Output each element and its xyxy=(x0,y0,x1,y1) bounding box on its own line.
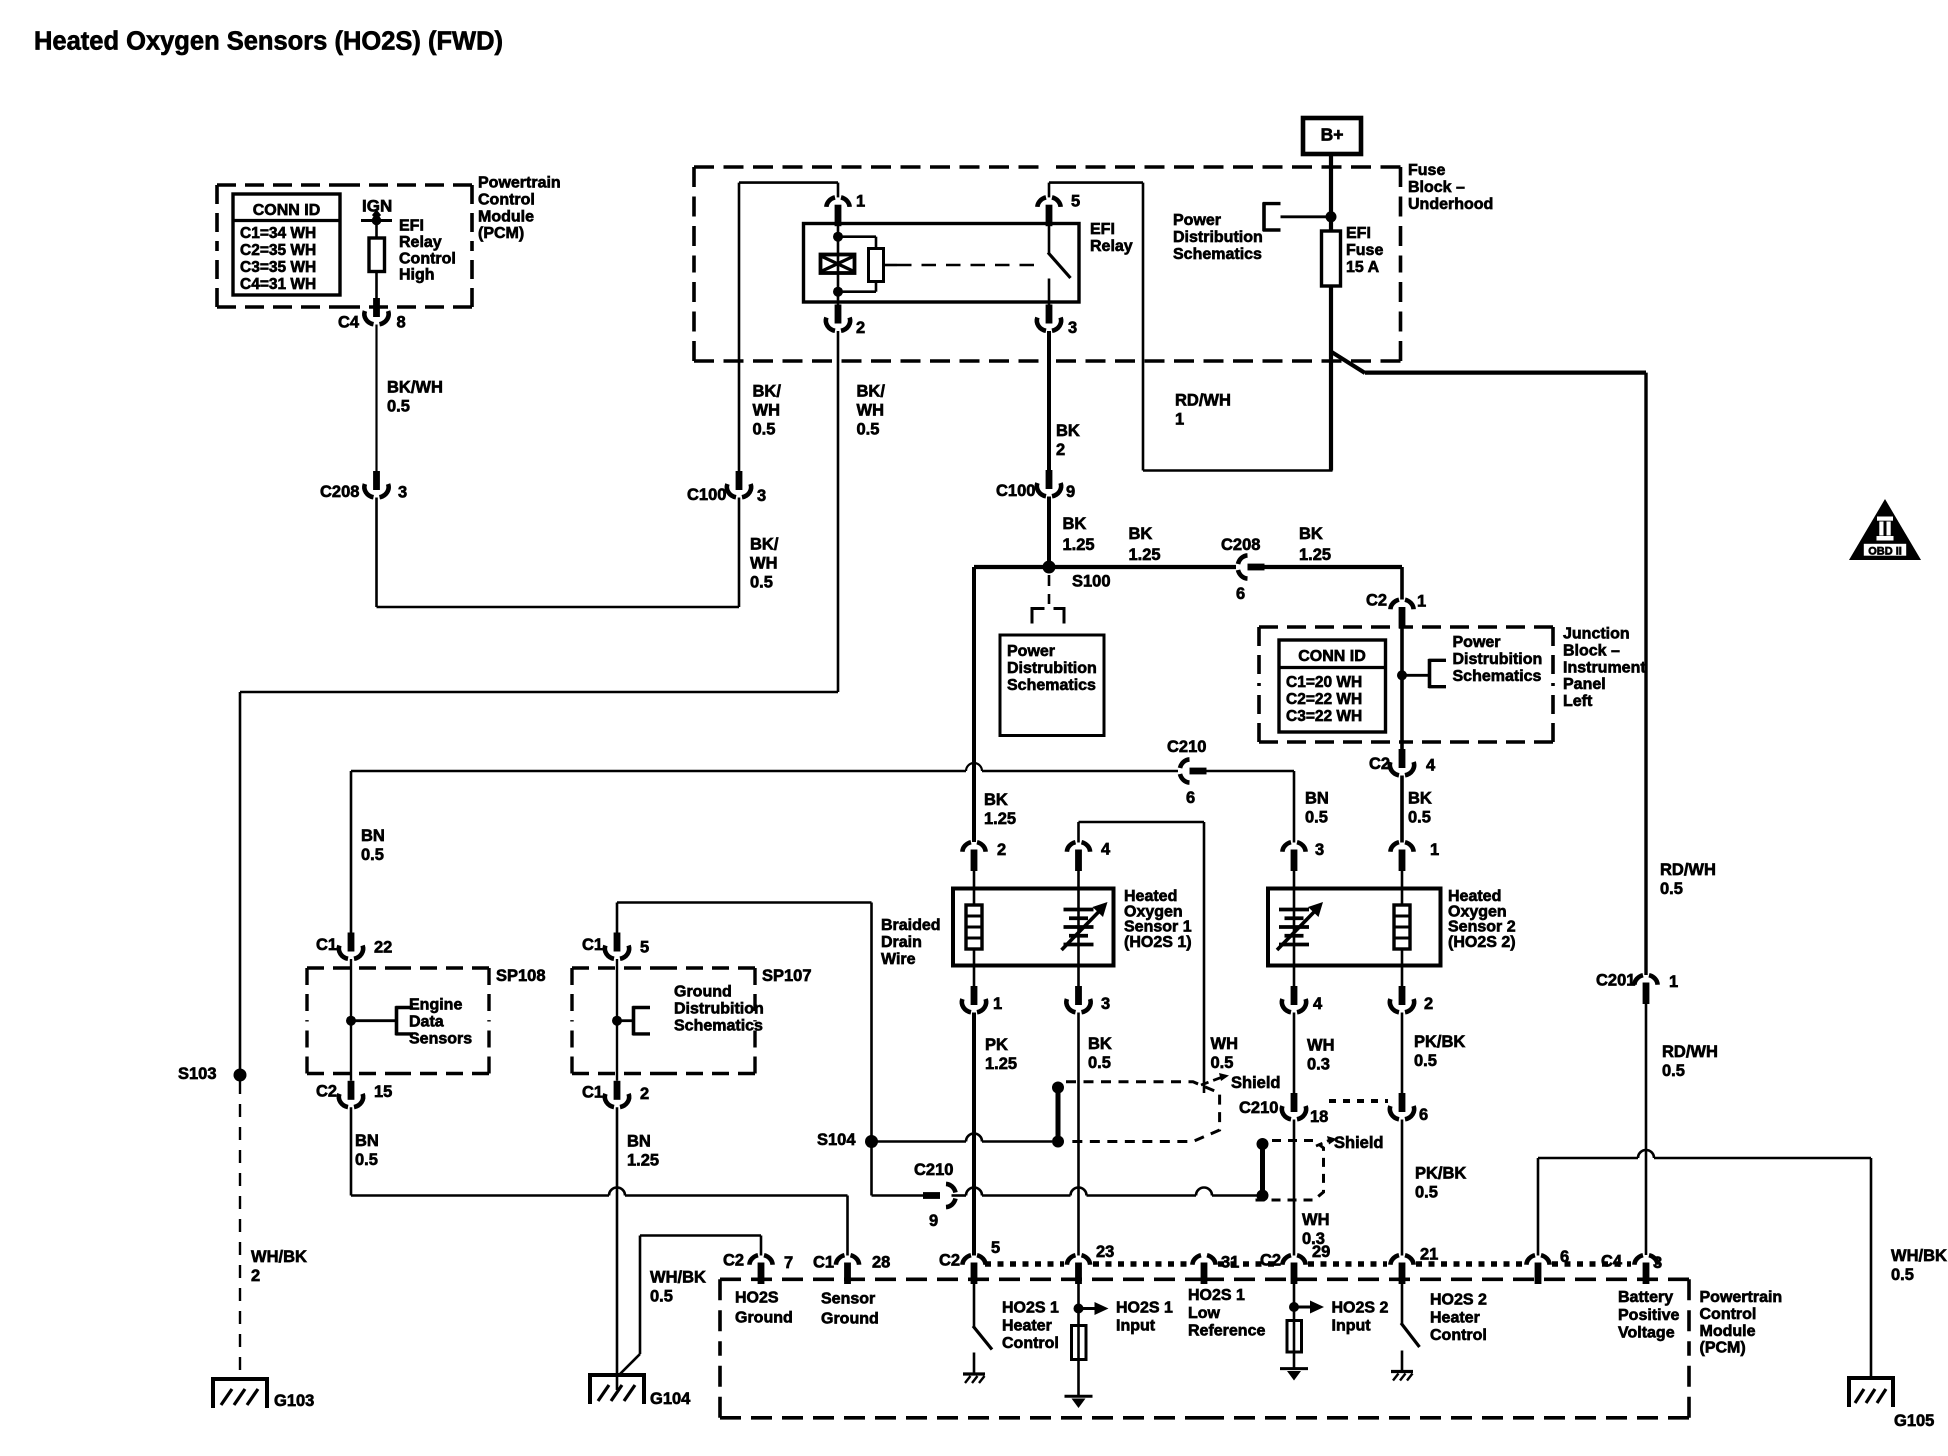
svg-text:3: 3 xyxy=(1068,319,1077,337)
svg-text:BK/: BK/ xyxy=(753,383,782,401)
svg-text:C2: C2 xyxy=(1369,755,1390,773)
svg-text:PK/BK: PK/BK xyxy=(1414,1033,1465,1051)
svg-text:BN: BN xyxy=(355,1132,379,1150)
svg-text:Heater: Heater xyxy=(1430,1309,1480,1326)
svg-text:EFI: EFI xyxy=(399,218,424,235)
label Powertrain Control Module PCM xyxy=(1700,1289,1783,1356)
svg-text:5: 5 xyxy=(991,1239,1000,1257)
SP108 wire xyxy=(350,959,352,1081)
label HO2S 1 Low Reference xyxy=(1188,1287,1265,1339)
label WH/BK 0.5 right xyxy=(1891,1247,1947,1284)
svg-text:0.5: 0.5 xyxy=(1891,1266,1914,1284)
svg-text:0.5: 0.5 xyxy=(1408,809,1431,827)
connector relay pin 1 xyxy=(826,183,865,227)
svg-text:Distrubition: Distrubition xyxy=(1453,651,1543,668)
svg-text:5: 5 xyxy=(1071,193,1080,211)
wire trunk BK 1.25 xyxy=(974,567,1402,842)
wire B+ to fuse xyxy=(1326,154,1337,231)
svg-text:0.5: 0.5 xyxy=(1305,809,1328,827)
wire PK 1.25 xyxy=(974,1013,1017,1256)
svg-text:BK: BK xyxy=(984,791,1008,809)
svg-text:Module: Module xyxy=(478,208,534,225)
svg-text:Heated Oxygen Sensors (HO2S) (: Heated Oxygen Sensors (HO2S) (FWD) xyxy=(34,28,503,56)
svg-text:Voltage: Voltage xyxy=(1618,1325,1675,1342)
svg-text:C2: C2 xyxy=(939,1252,960,1270)
connector C208 pin 3 xyxy=(320,471,407,502)
label B+ xyxy=(1303,118,1361,154)
svg-text:HO2S 1: HO2S 1 xyxy=(1116,1300,1173,1317)
svg-text:HO2S 1: HO2S 1 xyxy=(1188,1287,1245,1304)
svg-text:WH/BK: WH/BK xyxy=(251,1248,307,1266)
svg-text:22: 22 xyxy=(374,939,392,957)
svg-text:S100: S100 xyxy=(1072,573,1111,591)
HO2S1 sensor element xyxy=(1062,866,1108,987)
wire C210-9 to shield 2 drain xyxy=(952,1188,1263,1196)
svg-text:6: 6 xyxy=(1560,1248,1569,1266)
svg-text:BK/WH: BK/WH xyxy=(387,379,443,397)
svg-text:Fuse: Fuse xyxy=(1346,242,1383,259)
svg-text:HO2S 2: HO2S 2 xyxy=(1332,1300,1389,1317)
svg-text:0.5: 0.5 xyxy=(1088,1054,1111,1072)
svg-text:Ground: Ground xyxy=(674,984,732,1001)
svg-text:C210: C210 xyxy=(1239,1099,1278,1117)
svg-text:C100: C100 xyxy=(687,486,726,504)
pcm pin31 stub xyxy=(1203,1281,1206,1284)
relay dashed actuator link xyxy=(884,264,1041,267)
pcm HO2S1 heater switch xyxy=(963,1281,992,1384)
svg-text:C4: C4 xyxy=(1601,1253,1623,1271)
svg-text:BK: BK xyxy=(1088,1035,1112,1053)
svg-text:4: 4 xyxy=(1426,757,1436,775)
label Junction Block - Instrument Panel Left xyxy=(1563,626,1646,710)
connector C1 pin 5 xyxy=(582,933,649,959)
svg-text:OBD II: OBD II xyxy=(1868,546,1902,558)
connector C2 pin 15 xyxy=(316,1081,392,1107)
svg-text:C1=20 WH: C1=20 WH xyxy=(1286,674,1362,691)
svg-text:Input: Input xyxy=(1116,1317,1156,1334)
wire PK/BK 0.5 upper xyxy=(1402,1013,1465,1094)
svg-text:C2: C2 xyxy=(1260,1252,1281,1270)
relay switch xyxy=(1048,226,1071,305)
svg-text:Schematics: Schematics xyxy=(674,1017,763,1034)
svg-text:CONN ID: CONN ID xyxy=(253,202,321,219)
Heated Oxygen Sensor 1 box xyxy=(953,889,1114,966)
Power Distrubition Schematics box xyxy=(1000,635,1104,736)
connector C2 pin 4 xyxy=(1369,749,1436,775)
svg-text:C2=22 WH: C2=22 WH xyxy=(1286,691,1362,708)
svg-text:C4=31 WH: C4=31 WH xyxy=(240,276,316,293)
splice S104 xyxy=(817,1131,878,1149)
svg-text:RD/WH: RD/WH xyxy=(1660,861,1716,879)
label Heated Oxygen Sensor 2 xyxy=(1448,888,1516,951)
label Heated Oxygen Sensor 1 xyxy=(1124,888,1192,951)
SP107 dashed box xyxy=(572,967,812,1074)
SP108 dashed box xyxy=(307,967,546,1074)
svg-text:Shield: Shield xyxy=(1231,1074,1281,1092)
label Sensor Ground xyxy=(821,1291,879,1328)
wire BK 2 xyxy=(1049,331,1080,470)
label HO2S 1 Heater Control xyxy=(1002,1300,1059,1352)
svg-text:CONN ID: CONN ID xyxy=(1298,648,1366,665)
svg-text:18: 18 xyxy=(1310,1108,1328,1126)
svg-text:C208: C208 xyxy=(1221,536,1260,554)
svg-text:Reference: Reference xyxy=(1188,1323,1265,1340)
label WH 0.5 xyxy=(1211,1035,1239,1072)
svg-text:Control: Control xyxy=(478,192,535,209)
svg-text:Panel: Panel xyxy=(1563,676,1606,693)
svg-text:PK: PK xyxy=(985,1036,1008,1054)
svg-text:Powertrain: Powertrain xyxy=(1700,1289,1783,1306)
svg-text:Distrubition: Distrubition xyxy=(674,1001,764,1018)
svg-text:0.5: 0.5 xyxy=(753,421,776,439)
connector C2 pin 5 xyxy=(939,1239,1000,1284)
connector HO2S2 pin 2 xyxy=(1390,986,1433,1013)
svg-text:C1: C1 xyxy=(813,1254,834,1272)
shield 1 drain xyxy=(1052,1082,1064,1148)
connector C1 pin 28 xyxy=(813,1254,890,1285)
label BK 1.25 right xyxy=(1299,525,1331,564)
svg-text:C100: C100 xyxy=(996,482,1035,500)
svg-text:BK/: BK/ xyxy=(750,536,779,554)
svg-text:Module: Module xyxy=(1700,1323,1756,1340)
svg-text:WH: WH xyxy=(857,402,885,420)
svg-text:7: 7 xyxy=(784,1254,793,1272)
connector pin 21 xyxy=(1390,1246,1438,1285)
ground G105 xyxy=(1849,1376,1934,1430)
connector HO2S2 pin 3 xyxy=(1282,841,1324,871)
svg-text:Battery: Battery xyxy=(1618,1289,1673,1306)
wire BN 0.5 down xyxy=(351,1107,379,1195)
svg-text:Control: Control xyxy=(1700,1306,1757,1323)
label EFI Fuse 15 A xyxy=(1346,225,1383,276)
svg-text:C1: C1 xyxy=(316,936,337,954)
wire BN to C1-28 xyxy=(351,1188,848,1256)
wire BK/WH 0.5 relay pin2 down xyxy=(838,331,885,692)
connector HO2S1 pin 4 xyxy=(1067,841,1111,872)
wire WH 0.3 lower xyxy=(1294,1120,1330,1256)
Fuse Block - Underhood dashed box xyxy=(694,167,1401,361)
wire BN 0.5 horizontal xyxy=(351,763,1178,933)
svg-text:C2: C2 xyxy=(316,1083,337,1101)
wire S104 to shield drain xyxy=(872,1134,1053,1142)
svg-text:C2: C2 xyxy=(1366,592,1387,610)
svg-text:Distribution: Distribution xyxy=(1173,229,1263,246)
connector HO2S1 pin 2 xyxy=(962,841,1006,871)
svg-text:WH: WH xyxy=(750,555,778,573)
HO2S1 heater element xyxy=(966,866,982,987)
svg-text:Schematics: Schematics xyxy=(1453,668,1542,685)
svg-text:23: 23 xyxy=(1096,1243,1114,1261)
connector C210 pin 9 xyxy=(914,1161,956,1230)
svg-text:2: 2 xyxy=(856,319,865,337)
fuse EFI 15A xyxy=(1322,231,1341,471)
HO2S2 heater element xyxy=(1394,866,1410,987)
wire PK/BK 0.5 lower xyxy=(1402,1120,1466,1256)
svg-text:1.25: 1.25 xyxy=(1063,536,1095,554)
svg-text:Distrubition: Distrubition xyxy=(1007,660,1097,677)
svg-text:Left: Left xyxy=(1563,693,1593,710)
svg-text:C2=35 WH: C2=35 WH xyxy=(240,242,316,259)
svg-text:0.5: 0.5 xyxy=(1211,1054,1234,1072)
svg-text:Instrument: Instrument xyxy=(1563,659,1646,676)
node IGN feed xyxy=(361,210,392,226)
svg-text:BK: BK xyxy=(1129,525,1153,543)
svg-text:Schematics: Schematics xyxy=(1007,677,1096,694)
svg-text:WH/BK: WH/BK xyxy=(650,1269,706,1287)
shield 2 drain xyxy=(1257,1138,1269,1202)
connector C100 pin 3 xyxy=(687,471,766,505)
svg-text:HO2S 2: HO2S 2 xyxy=(1430,1292,1487,1309)
svg-text:BN: BN xyxy=(627,1133,651,1151)
wire braided drain xyxy=(617,903,872,1142)
connector HO2S2 pin 1 xyxy=(1390,841,1439,871)
label HO2S 2 Input xyxy=(1332,1300,1389,1335)
svg-text:C3=22 WH: C3=22 WH xyxy=(1286,708,1362,725)
svg-text:0.5: 0.5 xyxy=(355,1151,378,1169)
svg-text:B+: B+ xyxy=(1321,124,1344,144)
connector C1 pin 22 xyxy=(316,933,392,959)
svg-text:Sensors: Sensors xyxy=(409,1030,472,1047)
wire WH/BK 0.5 to G104 xyxy=(618,1236,761,1377)
svg-text:Underhood: Underhood xyxy=(1408,196,1493,213)
wire RD/WH 0.5 lower xyxy=(1646,1004,1718,1256)
connector C210 pin 6b xyxy=(1390,1093,1428,1124)
ground G104 xyxy=(590,1373,691,1408)
wire to S103 xyxy=(240,692,838,1075)
label EFI Relay xyxy=(1090,221,1133,255)
svg-text:(HO2S 1): (HO2S 1) xyxy=(1124,934,1192,951)
connector relay pin 2 xyxy=(826,305,865,338)
wire RD/WH to C201 xyxy=(1331,352,1646,975)
relay coil bracket and armature xyxy=(838,237,884,292)
svg-text:Heater: Heater xyxy=(1002,1317,1052,1334)
svg-text:1: 1 xyxy=(856,193,865,211)
svg-text:High: High xyxy=(399,267,435,284)
svg-text:WH: WH xyxy=(1307,1037,1335,1055)
label BK 1.25 left xyxy=(1129,525,1161,564)
connector HO2S1 pin 1 xyxy=(962,986,1002,1013)
svg-text:1: 1 xyxy=(993,995,1002,1013)
svg-text:28: 28 xyxy=(872,1254,890,1272)
svg-text:6: 6 xyxy=(1236,585,1245,603)
svg-text:Control: Control xyxy=(399,250,456,267)
title xyxy=(34,28,503,56)
svg-text:0.5: 0.5 xyxy=(387,398,410,416)
svg-text:(PCM): (PCM) xyxy=(478,225,524,242)
connector C210 pin 18 xyxy=(1239,1093,1328,1126)
svg-text:1: 1 xyxy=(1669,973,1678,991)
svg-text:G105: G105 xyxy=(1894,1412,1934,1430)
svg-text:Positive: Positive xyxy=(1618,1307,1679,1324)
svg-text:RD/WH: RD/WH xyxy=(1662,1043,1718,1061)
svg-text:31: 31 xyxy=(1221,1254,1239,1272)
svg-text:Schematics: Schematics xyxy=(1173,246,1262,263)
connector C1 pin 2 xyxy=(582,1081,649,1107)
label BN 0.5 SP108 column xyxy=(361,827,385,864)
svg-text:Low: Low xyxy=(1188,1305,1221,1322)
label HO2S Ground xyxy=(735,1290,793,1327)
svg-text:3: 3 xyxy=(1653,1254,1662,1272)
connector C201 pin 1 xyxy=(1596,972,1678,1005)
OBD II icon xyxy=(1849,499,1921,560)
wire BK/WH 0.5 PCM to C208 xyxy=(377,325,443,472)
svg-text:1: 1 xyxy=(1417,593,1426,611)
svg-text:Shield: Shield xyxy=(1334,1134,1384,1152)
connector pin 6 pcm xyxy=(1526,1248,1569,1284)
svg-text:5: 5 xyxy=(640,939,649,957)
svg-text:2: 2 xyxy=(997,841,1006,859)
svg-text:6: 6 xyxy=(1419,1106,1428,1124)
svg-text:6: 6 xyxy=(1186,789,1195,807)
svg-text:(PCM): (PCM) xyxy=(1700,1340,1746,1357)
svg-text:WH/BK: WH/BK xyxy=(1891,1247,1947,1265)
connector C208 pin 6 xyxy=(1221,536,1265,603)
relay coil xyxy=(821,226,855,305)
label BK 1.25 heater feed xyxy=(984,791,1016,828)
wire BN 1.25 to G104 xyxy=(617,1107,659,1390)
resistor EFI relay control xyxy=(369,221,385,299)
connector HO2S1 pin 3 xyxy=(1066,986,1110,1013)
svg-text:1.25: 1.25 xyxy=(984,810,1016,828)
svg-text:0.5: 0.5 xyxy=(1414,1052,1437,1070)
svg-text:Ground: Ground xyxy=(821,1311,879,1328)
wire WH/BK 2 dashed xyxy=(240,1081,307,1379)
CONN ID table junction xyxy=(1279,640,1386,732)
connector C2 pin 1 xyxy=(1366,592,1426,629)
label HO2S 1 Input xyxy=(1116,1300,1173,1335)
svg-text:RD/WH: RD/WH xyxy=(1175,392,1231,410)
svg-text:BK/: BK/ xyxy=(857,383,886,401)
C210 connector dashed link xyxy=(1329,1099,1388,1103)
svg-text:0.5: 0.5 xyxy=(1662,1062,1685,1080)
svg-text:Power: Power xyxy=(1453,634,1501,651)
wire pin4 loop WH 0.5 xyxy=(1079,822,1205,1093)
Heated Oxygen Sensor 2 box xyxy=(1268,889,1441,966)
svg-text:Junction: Junction xyxy=(1563,626,1630,643)
svg-text:2: 2 xyxy=(251,1267,260,1285)
connector HO2S2 pin 4 xyxy=(1282,986,1323,1013)
svg-text:3: 3 xyxy=(757,487,766,505)
svg-text:SP108: SP108 xyxy=(496,967,546,985)
svg-text:Data: Data xyxy=(409,1014,444,1031)
wire RD/WH 1 loop xyxy=(1049,183,1333,471)
svg-text:1.25: 1.25 xyxy=(627,1152,659,1170)
svg-text:0.5: 0.5 xyxy=(1660,880,1683,898)
HO2S2 sensor element xyxy=(1277,866,1323,987)
wire BK 0.5 HO2S1 pin3 xyxy=(1079,1013,1112,1256)
svg-text:Block –: Block – xyxy=(1408,179,1465,196)
wire BK 1.25 to S100 xyxy=(1049,497,1095,568)
svg-text:9: 9 xyxy=(1066,483,1075,501)
PCM top-left dashed box xyxy=(217,185,472,307)
svg-text:8: 8 xyxy=(397,314,406,332)
svg-text:1.25: 1.25 xyxy=(1299,546,1331,564)
connector C100 pin 9 xyxy=(996,470,1075,501)
svg-text:Drain: Drain xyxy=(881,934,922,951)
wire BK/WH 0.5 relay pin1 to C100-3 xyxy=(739,183,838,471)
svg-text:Block –: Block – xyxy=(1563,643,1620,660)
SP108 ref bracket xyxy=(346,997,472,1048)
svg-text:0.5: 0.5 xyxy=(1415,1184,1438,1202)
svg-text:Input: Input xyxy=(1332,1317,1372,1334)
svg-text:EFI: EFI xyxy=(1090,221,1115,238)
svg-text:Relay: Relay xyxy=(399,234,442,251)
splice S103 xyxy=(178,1065,247,1083)
label RD/WH 0.5 upper xyxy=(1660,861,1716,898)
svg-text:C1=34 WH: C1=34 WH xyxy=(240,225,316,242)
splice S100 xyxy=(1043,561,1111,591)
svg-text:Power: Power xyxy=(1173,212,1221,229)
svg-text:S104: S104 xyxy=(817,1131,856,1149)
svg-text:2: 2 xyxy=(1056,441,1065,459)
pcm HO2S2 heater switch xyxy=(1391,1281,1420,1381)
svg-text:C4: C4 xyxy=(338,314,360,332)
CONN ID table PCM xyxy=(233,194,340,295)
wire BN 0.5 to HO2S2 pin3 xyxy=(1207,771,1329,843)
svg-text:9: 9 xyxy=(929,1212,938,1230)
svg-text:29: 29 xyxy=(1312,1243,1330,1261)
svg-text:C210: C210 xyxy=(914,1161,953,1179)
svg-text:0.5: 0.5 xyxy=(750,574,773,592)
label Braided Drain Wire xyxy=(881,917,941,968)
shield 2 outline xyxy=(1250,1136,1337,1200)
label Shield 2 xyxy=(1334,1134,1384,1152)
svg-text:WH: WH xyxy=(1211,1035,1239,1053)
connector C4 pin 3 xyxy=(1601,1253,1662,1285)
svg-text:4: 4 xyxy=(1101,841,1111,859)
svg-text:WH: WH xyxy=(1302,1211,1330,1229)
label EFI Relay Control High xyxy=(399,218,456,284)
svg-text:Wire: Wire xyxy=(881,951,916,968)
svg-text:2: 2 xyxy=(640,1085,649,1103)
connector C210 pin 6 xyxy=(1167,738,1207,807)
shield 1 outline xyxy=(1066,1073,1229,1142)
S100 dashes to reference box xyxy=(1032,575,1064,624)
svg-text:C1: C1 xyxy=(582,1084,603,1102)
wire WH 0.3 upper xyxy=(1294,1013,1335,1094)
svg-text:PK/BK: PK/BK xyxy=(1415,1165,1466,1183)
connector C4 pin 8 xyxy=(338,298,406,332)
svg-text:Sensor: Sensor xyxy=(821,1291,875,1308)
svg-text:3: 3 xyxy=(1101,995,1110,1013)
svg-text:C3=35 WH: C3=35 WH xyxy=(240,259,316,276)
wire HO2S ground to G105 xyxy=(1538,1150,1871,1378)
svg-text:Engine: Engine xyxy=(409,997,462,1014)
svg-text:BK: BK xyxy=(1299,525,1323,543)
EFI relay box xyxy=(804,224,1080,303)
junction ref bracket xyxy=(1397,634,1542,688)
svg-text:S103: S103 xyxy=(178,1065,217,1083)
SP107 ref bracket xyxy=(612,984,764,1035)
svg-text:C1: C1 xyxy=(582,936,603,954)
label Shield 1 xyxy=(1231,1074,1281,1092)
label Battery Positive Voltage xyxy=(1618,1289,1679,1341)
svg-text:Braided: Braided xyxy=(881,917,941,934)
svg-text:HO2S: HO2S xyxy=(735,1290,779,1307)
svg-text:1: 1 xyxy=(1430,841,1439,859)
svg-text:HO2S 1: HO2S 1 xyxy=(1002,1300,1059,1317)
PCM dashed box bottom xyxy=(720,1279,1689,1418)
svg-text:0.3: 0.3 xyxy=(1307,1056,1330,1074)
svg-text:BK: BK xyxy=(1063,515,1087,533)
pcm HO2S1 input xyxy=(1065,1281,1109,1409)
wire S104 to C210-9 xyxy=(872,1142,924,1196)
label Power Distribution Schematics xyxy=(1173,212,1263,263)
svg-text:WH: WH xyxy=(753,402,781,420)
label Powertrain Control Module (PCM) xyxy=(478,175,561,242)
connector C2 pin 7 xyxy=(723,1236,793,1285)
reference bracket fuse xyxy=(1263,202,1331,231)
